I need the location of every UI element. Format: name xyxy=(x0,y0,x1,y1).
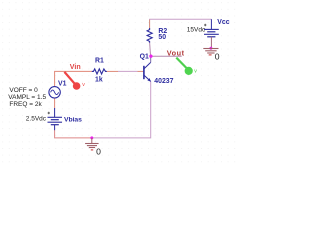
svg-text:1k: 1k xyxy=(95,76,103,83)
svg-text:2.5Vdc: 2.5Vdc xyxy=(26,116,47,123)
resistor R2 xyxy=(147,28,152,43)
svg-text:V1: V1 xyxy=(58,81,67,88)
svg-text:15Vdc: 15Vdc xyxy=(187,26,206,33)
voltage marker V (red) at Vin xyxy=(64,72,76,86)
svg-text:v: v xyxy=(82,82,85,88)
svg-text:v: v xyxy=(194,69,197,75)
svg-text:R1: R1 xyxy=(95,57,104,64)
wire V1 bottom to Vbias battery xyxy=(54,98,56,108)
battery Vbias 2.5Vdc xyxy=(54,108,56,117)
svg-text:FREQ = 2k: FREQ = 2k xyxy=(9,101,42,108)
svg-text:50: 50 xyxy=(158,34,166,41)
junction dot at ground 0 (left) xyxy=(90,136,93,139)
wire Vbias bottom to bus corner xyxy=(55,130,92,138)
wire battery minus to ground xyxy=(210,37,212,48)
junction node at collector/R2/Vout xyxy=(149,55,152,58)
resistor R1 xyxy=(92,69,107,74)
wire Vcc top: R2 top to battery xyxy=(149,19,151,28)
svg-text:Vbias: Vbias xyxy=(64,116,82,123)
junction dot at ground 0 (right) xyxy=(209,47,212,50)
svg-text:0: 0 xyxy=(215,51,220,61)
battery V2 15Vdc xyxy=(210,19,212,29)
wire Vin net: V1 top up and right to R1 xyxy=(55,71,93,86)
wire R2 bottom pin to junction xyxy=(150,42,151,56)
svg-text:0: 0 xyxy=(96,146,101,156)
transistor Q1 xyxy=(143,66,145,79)
wire Vout from collector junction xyxy=(151,55,182,57)
sine source V1 xyxy=(49,87,60,98)
wire R1 right to Q1 base xyxy=(107,70,119,72)
svg-text:Vcc: Vcc xyxy=(217,19,229,26)
svg-text:Q1: Q1 xyxy=(140,53,149,60)
svg-text:40237: 40237 xyxy=(154,78,173,85)
wire bottom bus to emitter xyxy=(92,81,151,138)
svg-text:Vin: Vin xyxy=(70,63,81,71)
ground 0 (left) xyxy=(91,138,93,144)
voltage marker V (green) at Vout xyxy=(176,58,188,70)
svg-text:Vout: Vout xyxy=(167,48,185,57)
ground 0 (right) xyxy=(203,48,218,50)
